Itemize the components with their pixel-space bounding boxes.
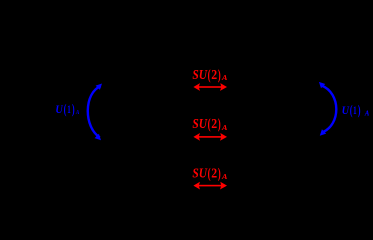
curved arrow U(1)_A right (blue arc, arrowheads both ends)	[319, 82, 336, 136]
svg-text:A: A	[221, 73, 228, 82]
svg-text:): )	[218, 166, 221, 182]
svg-text:2: 2	[211, 167, 217, 182]
label U(1)_A left	[55, 102, 79, 117]
svg-text:(: (	[64, 103, 67, 118]
svg-text:2: 2	[211, 117, 217, 132]
svg-text:SU: SU	[192, 68, 207, 83]
svg-text:A: A	[221, 123, 228, 132]
svg-text:SU: SU	[192, 167, 207, 182]
svg-text:): )	[72, 103, 75, 118]
svg-text:): )	[218, 67, 221, 83]
label SU(2)_A middle	[192, 116, 227, 132]
label SU(2)_A bottom	[192, 166, 227, 182]
svg-text:(: (	[208, 116, 211, 132]
svg-text:2: 2	[211, 68, 217, 83]
svg-text:A: A	[221, 172, 228, 181]
arrow SU(2)_A top (red double-headed)	[193, 83, 227, 91]
svg-text:1: 1	[353, 103, 357, 117]
svg-text:SU: SU	[192, 117, 207, 132]
svg-text:A: A	[364, 109, 370, 118]
svg-text:): )	[358, 103, 361, 118]
svg-text:A: A	[75, 109, 80, 116]
curved arrow U(1)_A left (blue arc, arrowheads both ends)	[88, 84, 102, 141]
svg-text:1: 1	[67, 102, 71, 116]
arrow SU(2)_A bottom (red double-headed)	[193, 182, 227, 190]
label SU(2)_A top	[192, 67, 227, 83]
svg-text:(: (	[208, 166, 211, 182]
svg-text:): )	[218, 116, 221, 132]
svg-text:(: (	[208, 67, 211, 83]
arrow SU(2)_A middle (red double-headed)	[193, 133, 227, 141]
label U(1)_A right	[342, 103, 370, 118]
